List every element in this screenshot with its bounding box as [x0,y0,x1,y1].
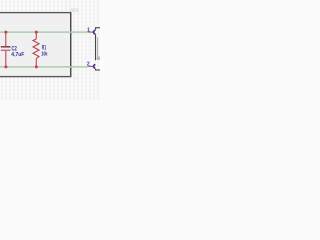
connector J1 body (black outline, clipped at right) [96,28,102,70]
pin 1 socket (navy semicircle) [94,30,96,34]
connector inner recess (gray) [97,57,100,60]
connector inner wall [97,38,99,61]
wire: resistor bottom lead (red vertical) [35,59,37,67]
svg-text:4,7uF: 4,7uF [11,52,24,58]
svg-text:ics: ics [70,7,78,14]
svg-text:1: 1 [87,27,90,33]
pin 2 socket (navy semicircle) [94,65,96,69]
IC/module body U1 (large gray block, clipped at left) [0,13,71,77]
module right edge accent [70,13,72,77]
svg-text:10k: 10k [41,52,48,58]
junction dot bottom-left (net/C2) [4,65,7,68]
svg-text:o: o [76,77,78,81]
wire: resistor top lead (red vertical) [35,32,37,39]
resistor R1 zigzag [33,39,39,59]
pin stub 1 (red) [88,31,93,33]
capacitor C2 bottom plate [1,49,11,51]
junction dot bottom-mid (net/R1) [35,65,38,68]
wire: capacitor bottom lead (red vertical) [5,51,7,67]
canvas background [0,0,100,100]
wire: top net (green), y=32 [0,31,88,33]
junction dot top-mid (net/R1) [35,31,38,34]
wire: bottom net (green), y=67 [0,66,88,68]
wire: capacitor top lead (red vertical) [5,32,7,46]
junction dot top-left (net/C2) [4,31,7,34]
capacitor C2 top plate [1,46,11,48]
pin stub 2 (red) [88,65,93,67]
svg-text:2: 2 [87,62,90,68]
